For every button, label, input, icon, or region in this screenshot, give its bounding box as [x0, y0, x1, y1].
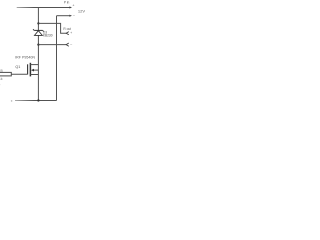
svg-text:–: –	[73, 14, 75, 18]
svg-text:05: 05	[0, 69, 3, 73]
svg-text:+: +	[72, 4, 74, 8]
svg-text:P in: P in	[64, 0, 70, 4]
svg-text:–: –	[70, 42, 72, 46]
svg-text:KB230: KB230	[43, 34, 53, 38]
svg-text:IRF P9540N: IRF P9540N	[15, 55, 35, 59]
svg-text:1k: 1k	[0, 77, 3, 81]
svg-text:.....: .....	[43, 41, 47, 44]
svg-text:+: +	[70, 31, 72, 35]
svg-text:12V: 12V	[78, 8, 86, 13]
svg-text:,.: ,.	[0, 82, 1, 86]
svg-text:Q1: Q1	[15, 65, 20, 69]
svg-text:R out: R out	[63, 27, 71, 31]
